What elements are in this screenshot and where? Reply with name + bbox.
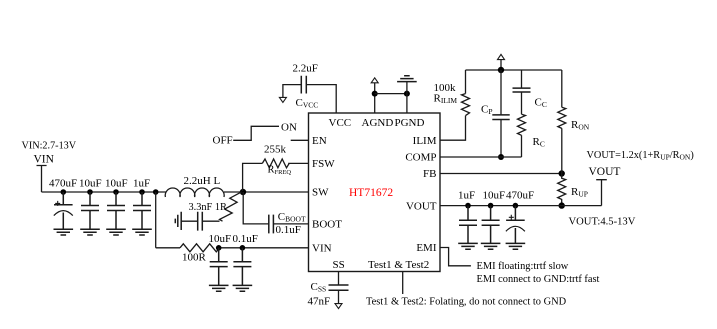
ground under 10uF branch (209, 285, 229, 291)
svg-text:EMI floating:trtf slow: EMI floating:trtf slow (477, 261, 569, 272)
labels output capacitors (458, 190, 534, 202)
capacitor CC column wire top (521, 70, 523, 88)
resistor RFREQ 255k (262, 159, 289, 168)
wire CC to RC (521, 92, 523, 114)
node junction VIN branch (153, 189, 159, 195)
capacitor 470uF input (polarized), value label (49, 178, 150, 190)
capacitor CP column wire top (500, 70, 502, 115)
svg-text:FSW: FSW (312, 158, 335, 170)
IC pin labels left (312, 135, 342, 255)
wire arrow stem (500, 60, 502, 70)
svg-text:1uF: 1uF (133, 178, 150, 190)
svg-text:EN: EN (312, 135, 327, 147)
svg-text:SW: SW (312, 187, 329, 199)
resistor RON column top (561, 70, 563, 107)
svg-text:Test1 & Test2: Folating, do no: Test1 & Test2: Folating, do not connect … (366, 297, 567, 308)
svg-text:FB: FB (423, 168, 436, 180)
svg-text:VIN: VIN (312, 243, 332, 255)
resistor RC (518, 114, 526, 135)
svg-text:VIN:2.7-13V: VIN:2.7-13V (22, 141, 77, 152)
svg-text:PGND: PGND (395, 117, 425, 129)
svg-text:10uF: 10uF (209, 233, 232, 245)
AGND arrow (open triangle up) (371, 78, 378, 83)
capacitor 10uF input #1 body (81, 192, 99, 229)
svg-text:2.2uF: 2.2uF (293, 63, 318, 75)
node junction CP COMP (498, 154, 504, 160)
resistor RILIM 100k (462, 94, 470, 116)
wire FSW column (243, 163, 263, 191)
capacitor 470uF out polarized body (506, 206, 525, 244)
wire CSS to ground arrow (338, 290, 340, 303)
wire Test1 Test2 pin (402, 272, 404, 295)
node junction C-IN4 (139, 189, 145, 195)
svg-text:VOUT: VOUT (406, 200, 437, 212)
ground arrow (open triangle down) CSS (335, 304, 342, 309)
wire COMP pin (440, 156, 522, 158)
svg-text:VOUT:4.5-13V: VOUT:4.5-13V (569, 216, 636, 227)
wire AGND to PGND (375, 93, 407, 95)
wire RFREQ to FSW pin (288, 162, 308, 164)
svg-text:EMI connect to GND:trtf fast: EMI connect to GND:trtf fast (477, 274, 600, 285)
node junction C-IN2 (87, 189, 93, 195)
ground under 1uF input (132, 229, 152, 235)
node junction 470uF out (513, 203, 519, 209)
switch wire OFF level (233, 126, 279, 140)
node junction C-IN3 (113, 189, 119, 195)
svg-text:100R: 100R (182, 252, 207, 264)
node junction 10uF branch (216, 245, 222, 251)
svg-text:VIN: VIN (34, 154, 55, 166)
svg-text:VOUT=1.2x(1+RUP/RON): VOUT=1.2x(1+RUP/RON) (587, 150, 694, 162)
svg-text:OFF: OFF (213, 135, 233, 147)
node junction rail arrow (498, 67, 504, 73)
wire RON to FB (561, 128, 563, 173)
wire ILIM pin (440, 116, 466, 141)
wire 100R to VIN pin (220, 247, 309, 249)
node junction RUP VOUT (559, 202, 565, 208)
ground under 470uF out (506, 243, 526, 249)
wire EMI pin (440, 248, 471, 266)
svg-text:0.1uF: 0.1uF (233, 233, 258, 245)
svg-text:VOUT: VOUT (589, 166, 621, 178)
capacitor 0.1uF branch body (233, 248, 251, 286)
node junction C-IN1 (61, 189, 67, 195)
wire EN stub (291, 139, 309, 141)
resistor RON (558, 107, 566, 128)
ground sideways (snubber) (175, 212, 181, 230)
wire CBOOT to BOOT pin (273, 223, 308, 225)
ground arrow (open triangle down) CVCC (279, 97, 286, 102)
resistor 100R (180, 244, 220, 252)
wire snubber resistor to capacitor (203, 220, 220, 222)
terminal VIN (37, 166, 47, 193)
IC pin labels top (329, 117, 425, 129)
svg-text:10uF: 10uF (79, 178, 102, 190)
svg-text:0.1uF: 0.1uF (276, 224, 301, 236)
terminal VOUT (596, 180, 607, 206)
capacitor 10uF branch body (210, 248, 228, 286)
op-amp U1 HT71672 IC body (309, 113, 441, 272)
IC pin labels right (405, 135, 437, 254)
wire branch to 100R (156, 247, 180, 249)
capacitor CP column wire bottom (500, 120, 502, 158)
svg-text:255k: 255k (264, 144, 287, 156)
capacitor 1uF input body (133, 192, 151, 229)
supply arrow (open triangle up) top rail (498, 54, 505, 59)
node junction 0.1uF branch (240, 245, 246, 251)
capacitor 10uF input #2 body (107, 192, 125, 229)
svg-text:AGND: AGND (362, 117, 394, 129)
inductor L 2.2uH (165, 175, 224, 197)
node junction 10uF out (488, 203, 494, 209)
svg-text:EMI: EMI (416, 242, 437, 254)
ground under 470uF input (54, 229, 74, 235)
svg-text:HT71672: HT71672 (349, 187, 393, 199)
svg-text:470uF: 470uF (49, 178, 77, 190)
resistor RUP (558, 174, 566, 206)
svg-text:10uF: 10uF (105, 178, 128, 190)
node junction FB (559, 170, 565, 176)
wire snubber capacitor to ground (181, 220, 197, 222)
svg-text:1uF: 1uF (458, 190, 475, 202)
ground under 10uF #2 (106, 229, 126, 235)
svg-text:SS: SS (333, 259, 345, 271)
svg-text:47nF: 47nF (308, 296, 331, 308)
capacitor CVCC body (301, 76, 306, 94)
svg-text:ILIM: ILIM (413, 135, 437, 147)
capacitor CP body (492, 115, 509, 120)
resistor 1R snubber (diagonal) (220, 192, 242, 221)
capacitor CSS body (329, 285, 349, 290)
node junction AGND (372, 91, 378, 97)
svg-text:VCC: VCC (329, 117, 352, 129)
ground under 0.1uF branch (233, 285, 253, 291)
wire RC to COMP (521, 135, 523, 157)
capacitor 3.3nF snubber body (198, 212, 203, 231)
wire VOUT pin rail (440, 205, 602, 207)
svg-text:10uF: 10uF (483, 190, 506, 202)
svg-text:3.3nF 1R: 3.3nF 1R (189, 202, 227, 213)
ground under 1uF out (458, 243, 478, 249)
wire BOOT column (243, 192, 269, 224)
wire input bus (42, 191, 167, 193)
IC pin labels bottom (333, 259, 430, 271)
svg-text:2.2uH L: 2.2uH L (184, 175, 221, 187)
wire FB pin (440, 173, 562, 175)
node VIN label (22, 141, 77, 166)
wire VIN branch drop (155, 192, 157, 248)
svg-text:470uF: 470uF (506, 190, 534, 202)
wire PGND pin (406, 82, 408, 113)
svg-text:BOOT: BOOT (312, 219, 342, 231)
svg-text:COMP: COMP (405, 152, 436, 164)
wire top rail (466, 69, 562, 71)
wire CVCC left to ground arrow (283, 85, 301, 98)
wire RILIM top to rail (465, 70, 467, 94)
wire inductor to SW node (224, 191, 309, 193)
node SW junction (240, 189, 246, 195)
ground under 10uF out (481, 243, 501, 249)
capacitor 10uF out body (482, 206, 500, 244)
capacitor 1uF out body (459, 206, 477, 244)
labels 10uF 0.1uF branch (209, 233, 258, 245)
node junction PGND (404, 91, 410, 97)
capacitor 470uF input polarized body (54, 192, 73, 229)
ground (inverted) above PGND (397, 76, 417, 82)
svg-text:ON: ON (281, 122, 297, 134)
wire AGND pin (374, 83, 376, 113)
svg-text:Test1 & Test2: Test1 & Test2 (368, 259, 429, 271)
node junction 1uF out (465, 203, 471, 209)
wire SS pin (338, 272, 340, 286)
ground under 10uF #1 (80, 229, 100, 235)
capacitor CBOOT body (269, 215, 274, 234)
wire CVCC to VCC pin (306, 85, 336, 113)
capacitor CC body (513, 88, 531, 92)
